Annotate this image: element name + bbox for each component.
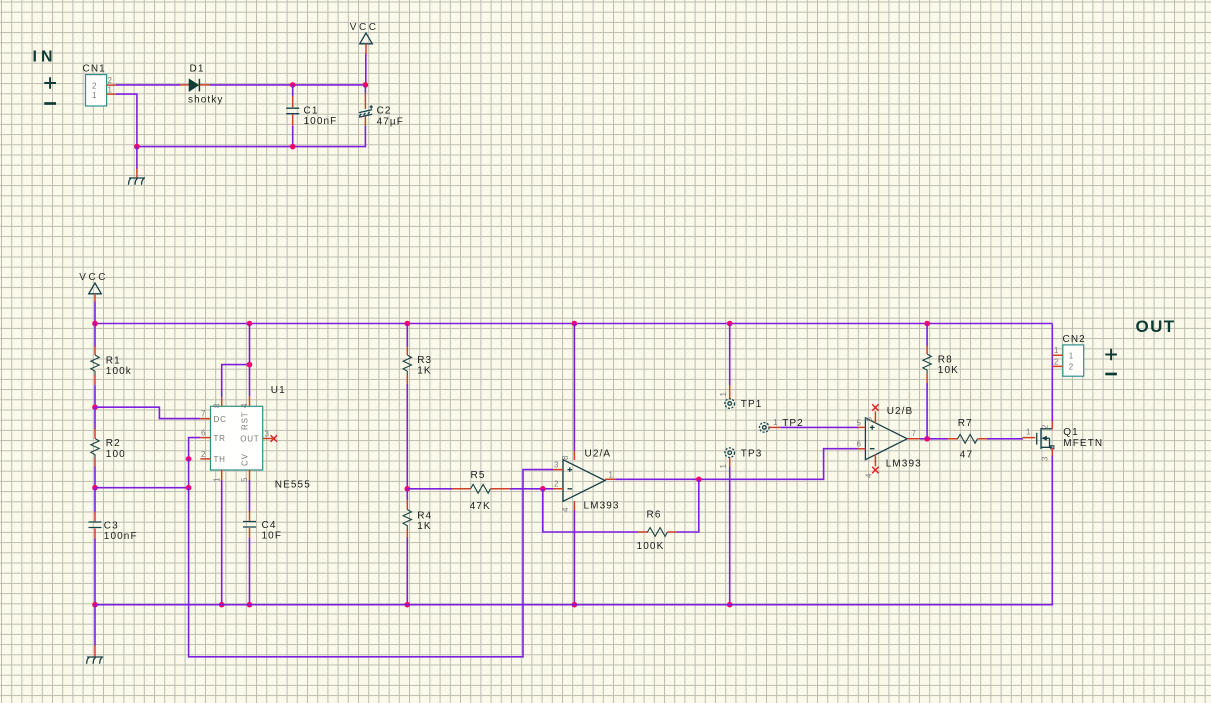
- capacitor C4 10F (on U1 pin5): [243, 480, 282, 605]
- svg-text:C2: C2: [377, 106, 392, 117]
- svg-text:3: 3: [554, 461, 559, 470]
- wire rail down to ground: [136, 147, 138, 169]
- junction (output/R8): [924, 436, 930, 442]
- resistor R7 47: [948, 418, 988, 460]
- test point TP3: [719, 448, 763, 469]
- capacitor C3 100nF: [89, 488, 138, 605]
- ground (input section): [128, 169, 145, 185]
- wire U1 pin1 to bottom bus: [221, 480, 223, 605]
- wire U2A output across to U2B minus: [616, 449, 858, 480]
- polarity mark + (output): [1105, 349, 1117, 361]
- resistor R4 1K: [403, 489, 432, 538]
- wire R8 down to output node: [926, 383, 928, 439]
- svg-text:8: 8: [561, 455, 570, 460]
- junction (output / R6 feedback): [696, 477, 702, 483]
- wire node to U1 pin7 (jog): [95, 407, 200, 418]
- svg-text:100nF: 100nF: [304, 116, 338, 127]
- wire CN1.1 to ground rail: [116, 94, 137, 147]
- svg-text:R3: R3: [417, 355, 432, 366]
- junction (pin1/bottom bus): [219, 602, 225, 608]
- wire R3 to divider node: [406, 384, 408, 489]
- resistor R3 1K: [403, 324, 432, 385]
- junction (VCC / C2 top): [363, 82, 369, 88]
- svg-text:100: 100: [106, 449, 126, 460]
- wire R4 to bottom bus: [406, 538, 408, 605]
- junction (R4/bottom bus): [405, 602, 411, 608]
- junction (pin5/bottom bus): [247, 602, 253, 608]
- junction (R1/R2/U1 pin7): [92, 404, 98, 410]
- polarity mark + (input): [44, 77, 56, 89]
- wire C1 node to VCC node: [293, 84, 366, 86]
- svg-text:4: 4: [240, 403, 249, 408]
- capacitor C2 47uF (polarized): [293, 85, 404, 147]
- svg-text:2: 2: [108, 76, 113, 85]
- op-amp U2/B LM393: [857, 406, 922, 478]
- wire U2B output to R7: [920, 438, 948, 440]
- svg-text:TH: TH: [214, 455, 226, 464]
- resistor R5 47K: [452, 470, 510, 512]
- junction (bus/TP1): [727, 321, 733, 327]
- test point TP1: [719, 385, 763, 410]
- junction (bus/R3): [405, 321, 411, 327]
- wire TP2 to U2B plus input: [780, 426, 858, 428]
- wire TH column to lower loop to U2A plus input: [189, 470, 553, 657]
- svg-text:1: 1: [719, 392, 728, 397]
- svg-text:LM393: LM393: [584, 500, 620, 511]
- wire R5 to U2A minus input: [510, 488, 553, 490]
- svg-text:CV: CV: [241, 453, 250, 466]
- svg-text:RST: RST: [241, 412, 250, 430]
- junction (bus/U1 pin4 column): [247, 321, 253, 327]
- svg-text:100nF: 100nF: [104, 531, 138, 542]
- svg-text:5: 5: [240, 477, 249, 482]
- wire ground rail: [137, 146, 293, 148]
- wire bottom bus: [95, 603, 1052, 606]
- svg-text:R5: R5: [471, 470, 486, 481]
- wire U2A pin4 to bottom bus: [573, 510, 575, 604]
- ground (lower section): [87, 645, 104, 664]
- power symbol VCC (top): [350, 22, 379, 54]
- svg-text:47K: 47K: [470, 501, 491, 512]
- svg-text:U2/B: U2/B: [887, 406, 914, 417]
- junction (bottom bus / ground drop): [92, 602, 98, 608]
- svg-text:C1: C1: [304, 106, 319, 117]
- wire R6 branch down and across: [543, 489, 638, 532]
- wire TH column down: [188, 459, 190, 488]
- svg-text:U2/A: U2/A: [585, 448, 612, 459]
- svg-text:C4: C4: [262, 520, 277, 531]
- junction (bus/U2A pin8): [572, 321, 578, 327]
- junction (bus/R1): [92, 321, 98, 327]
- svg-text:VCC: VCC: [350, 22, 379, 33]
- svg-text:1K: 1K: [417, 366, 431, 377]
- resistor R6 100K: [637, 509, 677, 552]
- junction (R2/C3/TH wire): [92, 485, 98, 491]
- junction (pin8 jog / pin4 column): [247, 362, 253, 368]
- svg-text:R2: R2: [106, 438, 121, 449]
- wire CN1.2 to D1 anode: [116, 84, 181, 86]
- svg-text:MFETN: MFETN: [1063, 438, 1103, 449]
- wire U2A pin8 to top bus: [573, 324, 575, 451]
- svg-text:1: 1: [719, 464, 728, 469]
- svg-text:1: 1: [1026, 428, 1031, 437]
- wire R2 to TH node: [94, 467, 96, 488]
- junction (pin4/bottom bus): [572, 602, 578, 608]
- svg-text:2: 2: [554, 480, 559, 489]
- svg-text:R8: R8: [938, 354, 953, 365]
- wire R1 to R2 node: [94, 385, 96, 407]
- wire VCC down to top rail: [365, 54, 367, 85]
- svg-text:1: 1: [1069, 352, 1074, 361]
- power symbol VCC (lower section): [79, 272, 108, 302]
- svg-text:TP3: TP3: [741, 448, 763, 459]
- no-connect X on U2B pin4: [872, 467, 878, 473]
- svg-text:2: 2: [1069, 363, 1074, 372]
- svg-text:2: 2: [1054, 357, 1059, 366]
- transistor Q1 MFETN: [1023, 421, 1104, 461]
- junction (TP3/bottom bus): [727, 602, 733, 608]
- svg-text:shotky: shotky: [188, 94, 224, 105]
- svg-text:3: 3: [1041, 456, 1050, 461]
- svg-text:10K: 10K: [938, 365, 959, 376]
- diode D1 shotky: [180, 64, 224, 106]
- svg-text:6: 6: [857, 440, 862, 449]
- svg-text:TR: TR: [214, 434, 226, 443]
- svg-text:R1: R1: [106, 356, 121, 367]
- wire pin4 column up to bus: [249, 324, 251, 397]
- svg-text:U1: U1: [271, 385, 286, 396]
- svg-text:LM393: LM393: [886, 458, 922, 469]
- wire TP1 to top bus: [729, 324, 731, 386]
- svg-text:1: 1: [108, 86, 113, 95]
- svg-text:CN2: CN2: [1063, 334, 1086, 345]
- svg-text:4: 4: [561, 507, 570, 512]
- svg-text:10F: 10F: [262, 531, 283, 542]
- resistor R8 10K: [923, 324, 959, 384]
- svg-text:R7: R7: [958, 418, 973, 429]
- junction (TH column / R2 wire): [186, 485, 192, 491]
- svg-text:NE555: NE555: [275, 480, 311, 491]
- connector CN2: [1052, 334, 1086, 376]
- junction (R3/R4/R5): [405, 486, 411, 492]
- svg-text:8: 8: [213, 403, 222, 408]
- polarity mark - (output): [1105, 373, 1117, 376]
- svg-text:4: 4: [865, 473, 874, 478]
- svg-text:IN: IN: [33, 49, 57, 66]
- resistor R1 100k: [91, 324, 132, 386]
- IC U1 NE555: [200, 385, 311, 491]
- test point TP2: [760, 418, 804, 432]
- svg-text:DC: DC: [214, 415, 227, 424]
- svg-text:CN1: CN1: [83, 64, 106, 75]
- wire D1 cathode to C1 node: [210, 84, 293, 86]
- wire U1 pin8 jog to pin4 column: [222, 365, 250, 397]
- svg-text:VCC: VCC: [79, 272, 108, 283]
- junction (rail / C1 bottom): [290, 144, 296, 150]
- wire TH node across: [95, 487, 189, 489]
- op-amp U2/A LM393: [553, 448, 620, 512]
- svg-text:47: 47: [960, 449, 973, 460]
- polarity mark - (input): [44, 102, 56, 105]
- connector CN1: [83, 64, 116, 107]
- resistor R2 100: [91, 407, 126, 466]
- svg-text:100K: 100K: [637, 541, 665, 552]
- svg-text:100k: 100k: [106, 366, 132, 377]
- junction (TH pin / column): [186, 456, 192, 462]
- wire TP3 down to bottom bus: [729, 467, 731, 605]
- svg-text:TP1: TP1: [741, 399, 763, 410]
- wire bus corner down to CN2 and Q1 drain: [1051, 324, 1053, 422]
- svg-text:R4: R4: [417, 510, 432, 521]
- junction (bus/R8): [924, 321, 930, 327]
- no-connect X on U2B pin8: [872, 404, 878, 410]
- wire bus to ground: [94, 605, 96, 646]
- wire top bus (VCC net): [95, 323, 1052, 325]
- svg-text:3: 3: [265, 430, 270, 439]
- capacitor C1 100nF: [286, 85, 337, 147]
- svg-text:2: 2: [92, 82, 97, 91]
- svg-text:C3: C3: [104, 521, 119, 532]
- svg-text:1: 1: [92, 91, 97, 100]
- wire U1 pin6 to TH column: [189, 438, 201, 459]
- svg-text:OUT: OUT: [1136, 317, 1176, 336]
- no-connect X on U1 pin3: [271, 435, 277, 441]
- junction (rail / ground drop): [134, 144, 140, 150]
- junction (C1 top): [290, 82, 296, 88]
- svg-text:5: 5: [857, 418, 862, 427]
- svg-text:1: 1: [773, 418, 778, 427]
- svg-text:2: 2: [201, 450, 206, 459]
- wire R7 to Q1 gate: [987, 438, 1023, 440]
- svg-text:7: 7: [201, 410, 206, 419]
- svg-text:Q1: Q1: [1063, 427, 1079, 438]
- svg-text:6: 6: [201, 429, 206, 438]
- svg-text:7: 7: [912, 429, 917, 438]
- svg-text:D1: D1: [190, 64, 205, 75]
- wire R6 up to output node: [677, 479, 699, 532]
- wire Q1 source to bottom bus corner: [1051, 456, 1053, 605]
- svg-text:1: 1: [1054, 346, 1059, 355]
- svg-text:47µF: 47µF: [377, 116, 404, 127]
- svg-text:8: 8: [865, 417, 874, 422]
- svg-text:2: 2: [1041, 424, 1050, 429]
- svg-text:OUT: OUT: [240, 435, 259, 444]
- svg-text:1K: 1K: [417, 521, 431, 532]
- junction (minus input / R6 branch): [540, 486, 546, 492]
- svg-text:1: 1: [609, 470, 614, 479]
- wire VCC to top bus: [94, 302, 96, 324]
- svg-text:R6: R6: [647, 509, 662, 520]
- wire divider node to R5: [407, 488, 452, 490]
- svg-text:1: 1: [213, 477, 222, 482]
